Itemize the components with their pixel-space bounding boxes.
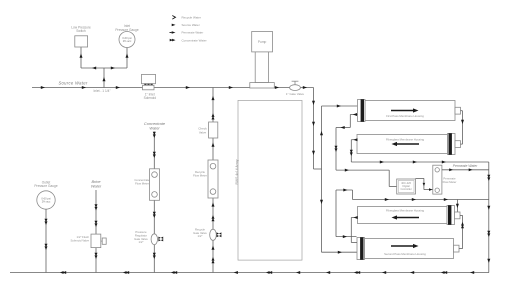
svg-text:Switch: Switch <box>76 29 86 33</box>
svg-text:Pressure Gauge: Pressure Gauge <box>34 184 57 188</box>
svg-text:2% acc: 2% acc <box>42 200 51 204</box>
svg-text:Flow Meter: Flow Meter <box>135 181 149 185</box>
svg-text:1" Gate Valve: 1" Gate Valve <box>286 92 305 96</box>
svg-text:Permeate Water: Permeate Water <box>453 164 478 168</box>
svg-text:Valve: Valve <box>199 131 207 135</box>
svg-text:Concentrate Water: Concentrate Water <box>182 38 207 42</box>
svg-text:Inlet - 1 1/4": Inlet - 1 1/4" <box>93 89 110 93</box>
svg-text:Flow Meter: Flow Meter <box>193 173 207 177</box>
svg-text:Solenoid: Solenoid <box>144 96 157 100</box>
svg-text:Fiberglass Membrane Housing: Fiberglass Membrane Housing <box>386 138 425 142</box>
svg-text:2% acc: 2% acc <box>123 39 132 43</box>
svg-text:Source Water: Source Water <box>58 81 87 86</box>
svg-text:RWS 4x14 Array: RWS 4x14 Array <box>235 159 239 184</box>
svg-text:Flow Meter: Flow Meter <box>443 180 457 184</box>
svg-text:1/2": 1/2" <box>139 240 144 244</box>
svg-text:Water: Water <box>91 184 102 189</box>
svg-text:Second Pass Membrane Housing: Second Pass Membrane Housing <box>384 252 426 256</box>
svg-text:First Pass Membrane Housing: First Pass Membrane Housing <box>386 114 424 118</box>
svg-text:Recycle Water: Recycle Water <box>182 16 201 20</box>
svg-text:Source Water: Source Water <box>182 23 200 27</box>
svg-text:Controller: Controller <box>400 187 411 191</box>
svg-text:Water: Water <box>149 126 160 131</box>
svg-text:Fiberglass Membrane Housing: Fiberglass Membrane Housing <box>386 209 425 213</box>
svg-text:1/2": 1/2" <box>198 234 203 238</box>
svg-text:Solenoid Valve: Solenoid Valve <box>71 239 90 243</box>
svg-text:Pump: Pump <box>258 40 267 44</box>
svg-text:Permeate Water: Permeate Water <box>182 31 204 35</box>
svg-text:Pressure Gauge: Pressure Gauge <box>115 28 138 32</box>
